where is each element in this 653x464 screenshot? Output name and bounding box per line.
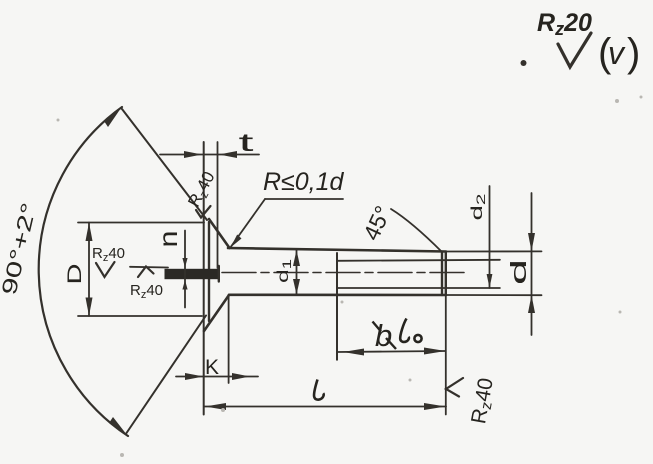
head face line (long extension for t,K,l) [203,142,205,415]
K right extension line [228,295,230,383]
svg-text:Rz40: Rz40 [467,376,500,426]
l right extension line [445,295,447,415]
svg-text:d1: d1 [275,259,294,283]
svg-text:b: b [375,318,392,353]
thread minor diameter bottom [337,287,500,289]
cone extension line upper [122,109,207,220]
45deg leader [391,209,442,252]
shank bottom extension to d dim [446,294,542,296]
roughness check top-right [558,33,591,67]
shank top extension to d dim [446,250,542,252]
slot bottom edge [218,266,220,282]
svg-text:45°: 45° [358,202,396,245]
svg-text:90°+2°: 90°+2° [0,201,41,298]
d dimension line [531,193,533,335]
thread start line [336,253,338,360]
svg-text:n: n [153,231,183,248]
svg-text:v: v [608,35,626,71]
thread minor diameter top [337,260,500,261]
head cone outline lower [204,295,229,331]
end face line 1 [441,252,443,295]
svg-text:d: d [506,259,531,285]
centerline axis [222,272,464,274]
d1 dimension line [296,250,298,295]
n dimension line [184,231,186,308]
K dimension line [176,376,258,378]
shank top outline [228,248,446,252]
head cone outline upper [209,219,230,248]
d2 dimension line [489,186,491,288]
slot-bottom extension line for t [217,142,219,268]
svg-text:t: t [239,129,254,157]
svg-text:K: K [205,356,219,379]
faint scan specks [57,96,643,458]
svg-text:D: D [65,264,86,285]
R leader diagonal [230,199,265,248]
R leader underline [265,198,343,200]
svg-text:Rz40: Rz40 [130,282,163,301]
shank bottom outline [229,293,446,296]
label l0 (script ell + o) [400,319,421,343]
label l (script ell) [314,380,324,400]
roughness check near Rz40 rotated [196,206,211,218]
b/l0 dimension line [337,351,446,352]
svg-text:d2: d2 [469,193,488,221]
slot leader line [130,266,168,269]
roughness check bottom-right end face [446,378,463,397]
l dimension line [204,406,446,408]
angle arc 90deg [39,107,128,436]
end face line 2 [445,252,447,295]
dot top-right [521,60,527,66]
svg-text:R≤0,1d: R≤0,1d [263,168,345,196]
arc arrow top [104,108,121,127]
svg-text:Rz20: Rz20 [537,9,592,39]
D dimension bottom extension [78,315,202,317]
roughness check on slot leader [138,267,154,278]
svg-text:Rz40: Rz40 [184,168,220,211]
slot (screwdriver slot, depth t) [165,269,220,279]
roughness check on D line [96,262,115,277]
arc arrow bottom [109,417,127,435]
head face outline [208,222,210,321]
cone extension line lower [127,316,207,434]
svg-text:): ) [627,31,640,75]
svg-text:Rz40: Rz40 [92,245,125,264]
D dimension line [88,223,90,317]
t dimension line [160,154,259,156]
D dimension top extension [78,222,204,224]
